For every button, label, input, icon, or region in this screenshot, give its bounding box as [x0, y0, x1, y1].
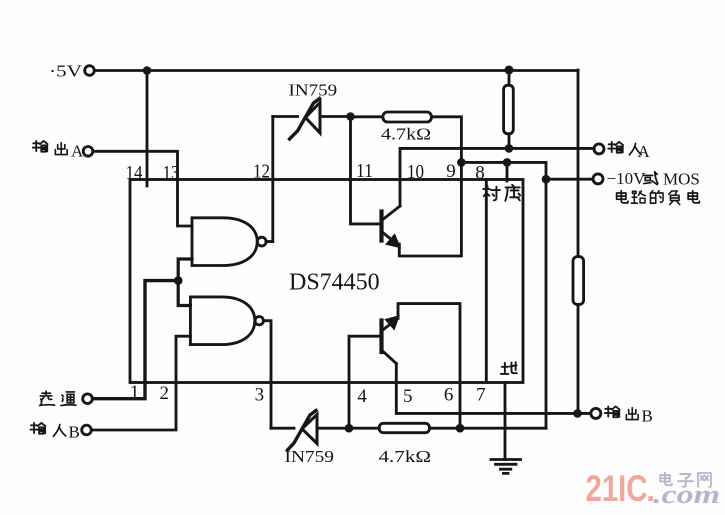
label ground (Chinese) [501, 362, 517, 374]
NAND gate U1b bubble [255, 317, 263, 325]
svg-text:A: A [638, 142, 651, 161]
pin 13 [163, 162, 180, 184]
svg-text:3: 3 [255, 385, 265, 406]
wire output-A lead to pin 13 [93, 151, 192, 226]
node output-B junction at R2 [573, 409, 582, 418]
wire bottom row zener to -10V column [271, 427, 546, 430]
wire NAND2 output pin 3 column [263, 321, 271, 429]
terminal output A [83, 147, 93, 157]
label 4.7k top [381, 125, 431, 144]
wire input-B lead to pin 2 and NAND2 input 2 [92, 336, 191, 430]
wire pin 4 column to Q2 base [349, 336, 382, 428]
svg-text:−10V: −10V [607, 169, 647, 188]
wire pin 9 column to Q1 emitter row [399, 162, 461, 256]
pin 4 [357, 386, 367, 407]
terminal +5V [85, 66, 95, 76]
wire R2 column from +5V to output-B row [577, 70, 580, 413]
wire pin 14 column from +5V [146, 71, 149, 187]
zener D1 left lead [273, 115, 298, 118]
label IN759 bottom [285, 447, 335, 466]
pin 11 [356, 160, 373, 182]
node bottom row pin 6 junction [456, 424, 465, 433]
label substrate (Chinese) [483, 185, 520, 201]
pin 12 [253, 161, 270, 183]
pin 1 [130, 382, 140, 403]
logo 21IC.com [586, 468, 721, 509]
transistor Q1 collector [382, 206, 401, 221]
transistor Q1 emitter with arrow [382, 232, 401, 248]
pin 5 [403, 386, 413, 407]
wire strobe junction to NAND1 input 2 [178, 259, 192, 281]
label output A (Chinese) [33, 141, 84, 161]
pin 6 [444, 385, 454, 406]
label MOS negative supply (Chinese) [617, 191, 700, 205]
pin 7 [476, 385, 486, 406]
label -10V or MOS (Chinese) [607, 169, 700, 189]
transistor Q1 base bar [379, 212, 383, 241]
transistor Q2 base bar [379, 321, 383, 353]
svg-text:·5V: ·5V [49, 62, 83, 81]
svg-text:MOS: MOS [663, 170, 700, 189]
NAND gate U1a body [192, 218, 257, 266]
svg-text:B: B [642, 407, 653, 426]
ground symbol [491, 460, 521, 474]
label 4.7k bottom [379, 447, 432, 466]
pin 2 [160, 383, 170, 404]
svg-text:6: 6 [444, 385, 454, 406]
node junction row2 pin 9 [457, 158, 466, 167]
resistor R3 4.7k top leads [351, 117, 462, 163]
svg-text:11: 11 [356, 160, 373, 182]
label +5V [49, 62, 83, 81]
node R1 bottom junction on input-A row [505, 144, 514, 153]
wire ground stem [504, 383, 507, 459]
node junction +5V rail at R1 top [505, 66, 514, 75]
terminal input B [82, 425, 92, 435]
pin 3 [255, 385, 265, 406]
svg-text:5: 5 [403, 386, 413, 407]
wire Q2 emitter path to bottom row [398, 304, 460, 429]
resistor R3 4.7k body [383, 112, 432, 122]
svg-text:2: 2 [160, 383, 170, 404]
svg-text:.com: .com [653, 480, 720, 509]
terminal output B [591, 408, 601, 418]
IC DS74450 outline [130, 180, 523, 383]
label strobe (Chinese) [40, 391, 76, 405]
label input B (Chinese) [31, 423, 80, 442]
transistor Q2 collector [382, 350, 397, 364]
node bottom row pin 4 junction [345, 424, 354, 433]
pin 9 [446, 161, 456, 182]
pin 8 [475, 163, 485, 184]
svg-text:7: 7 [476, 385, 486, 406]
svg-text:B: B [69, 423, 80, 442]
node junction row2 pin 8 [503, 158, 512, 167]
svg-text:21IC: 21IC [586, 468, 648, 509]
svg-text:A: A [71, 142, 84, 161]
svg-text:9: 9 [446, 161, 456, 182]
svg-text:12: 12 [253, 161, 270, 183]
NAND gate U1b body [190, 297, 254, 345]
svg-text:13: 13 [163, 162, 180, 184]
terminal -10V [593, 174, 603, 184]
zener diode D2 IN759 [288, 411, 318, 451]
wire +5V rail [94, 69, 578, 72]
label DS74450 [289, 270, 380, 296]
svg-text:4.7kΩ: 4.7kΩ [379, 447, 432, 466]
wire -10V column down to bottom row [545, 179, 548, 428]
zener diode D1 IN759 [290, 99, 321, 140]
wire strobe lead up to junction row [93, 281, 179, 399]
svg-text:DS74450: DS74450 [289, 270, 380, 296]
transistor Q2 emitter with arrow up [382, 316, 400, 331]
svg-text:IN759: IN759 [289, 81, 338, 100]
svg-text:14: 14 [126, 162, 143, 184]
NAND gate U1a bubble [257, 237, 266, 246]
wire Q2 collector to output-B row [396, 364, 591, 414]
wire pin 11 column to Q1 base [351, 117, 382, 224]
svg-text:4: 4 [357, 386, 367, 407]
resistor R1 leads [508, 70, 511, 148]
node strobe junction [174, 276, 183, 285]
zener D1 right lead [320, 115, 351, 118]
wire substrate inner rail [485, 180, 488, 383]
wire pin 8 tick [506, 162, 509, 181]
pin 10 [407, 161, 424, 183]
svg-text:8: 8 [475, 163, 485, 184]
node junction on +5V rail at pin14 column [143, 66, 152, 75]
pin 14 [126, 162, 143, 184]
node junction -10V corner [542, 175, 551, 184]
terminal input A [594, 144, 604, 154]
wire input-A row to pin 10 [400, 148, 594, 206]
label IN759 top [289, 81, 338, 100]
svg-text:1: 1 [130, 382, 140, 403]
label output B right (Chinese) [605, 406, 653, 425]
wire row pins 9-8 to -10V corner [461, 162, 593, 179]
svg-text:10: 10 [407, 161, 424, 183]
svg-text:IN759: IN759 [285, 447, 335, 466]
wire strobe junction to NAND2 input 1 [178, 281, 190, 306]
resistor R2 pull-up right body [573, 257, 584, 305]
terminal strobe [83, 394, 93, 404]
node zener D1 / R3 junction [346, 112, 355, 121]
resistor R4 4.7k bottom body [379, 423, 429, 432]
resistor R1 pull-up body [504, 85, 514, 134]
svg-text:4.7kΩ: 4.7kΩ [381, 125, 431, 144]
label input A right (Chinese) [608, 142, 650, 161]
wire pin 12 column NAND1 output to zener D1 [266, 117, 273, 242]
